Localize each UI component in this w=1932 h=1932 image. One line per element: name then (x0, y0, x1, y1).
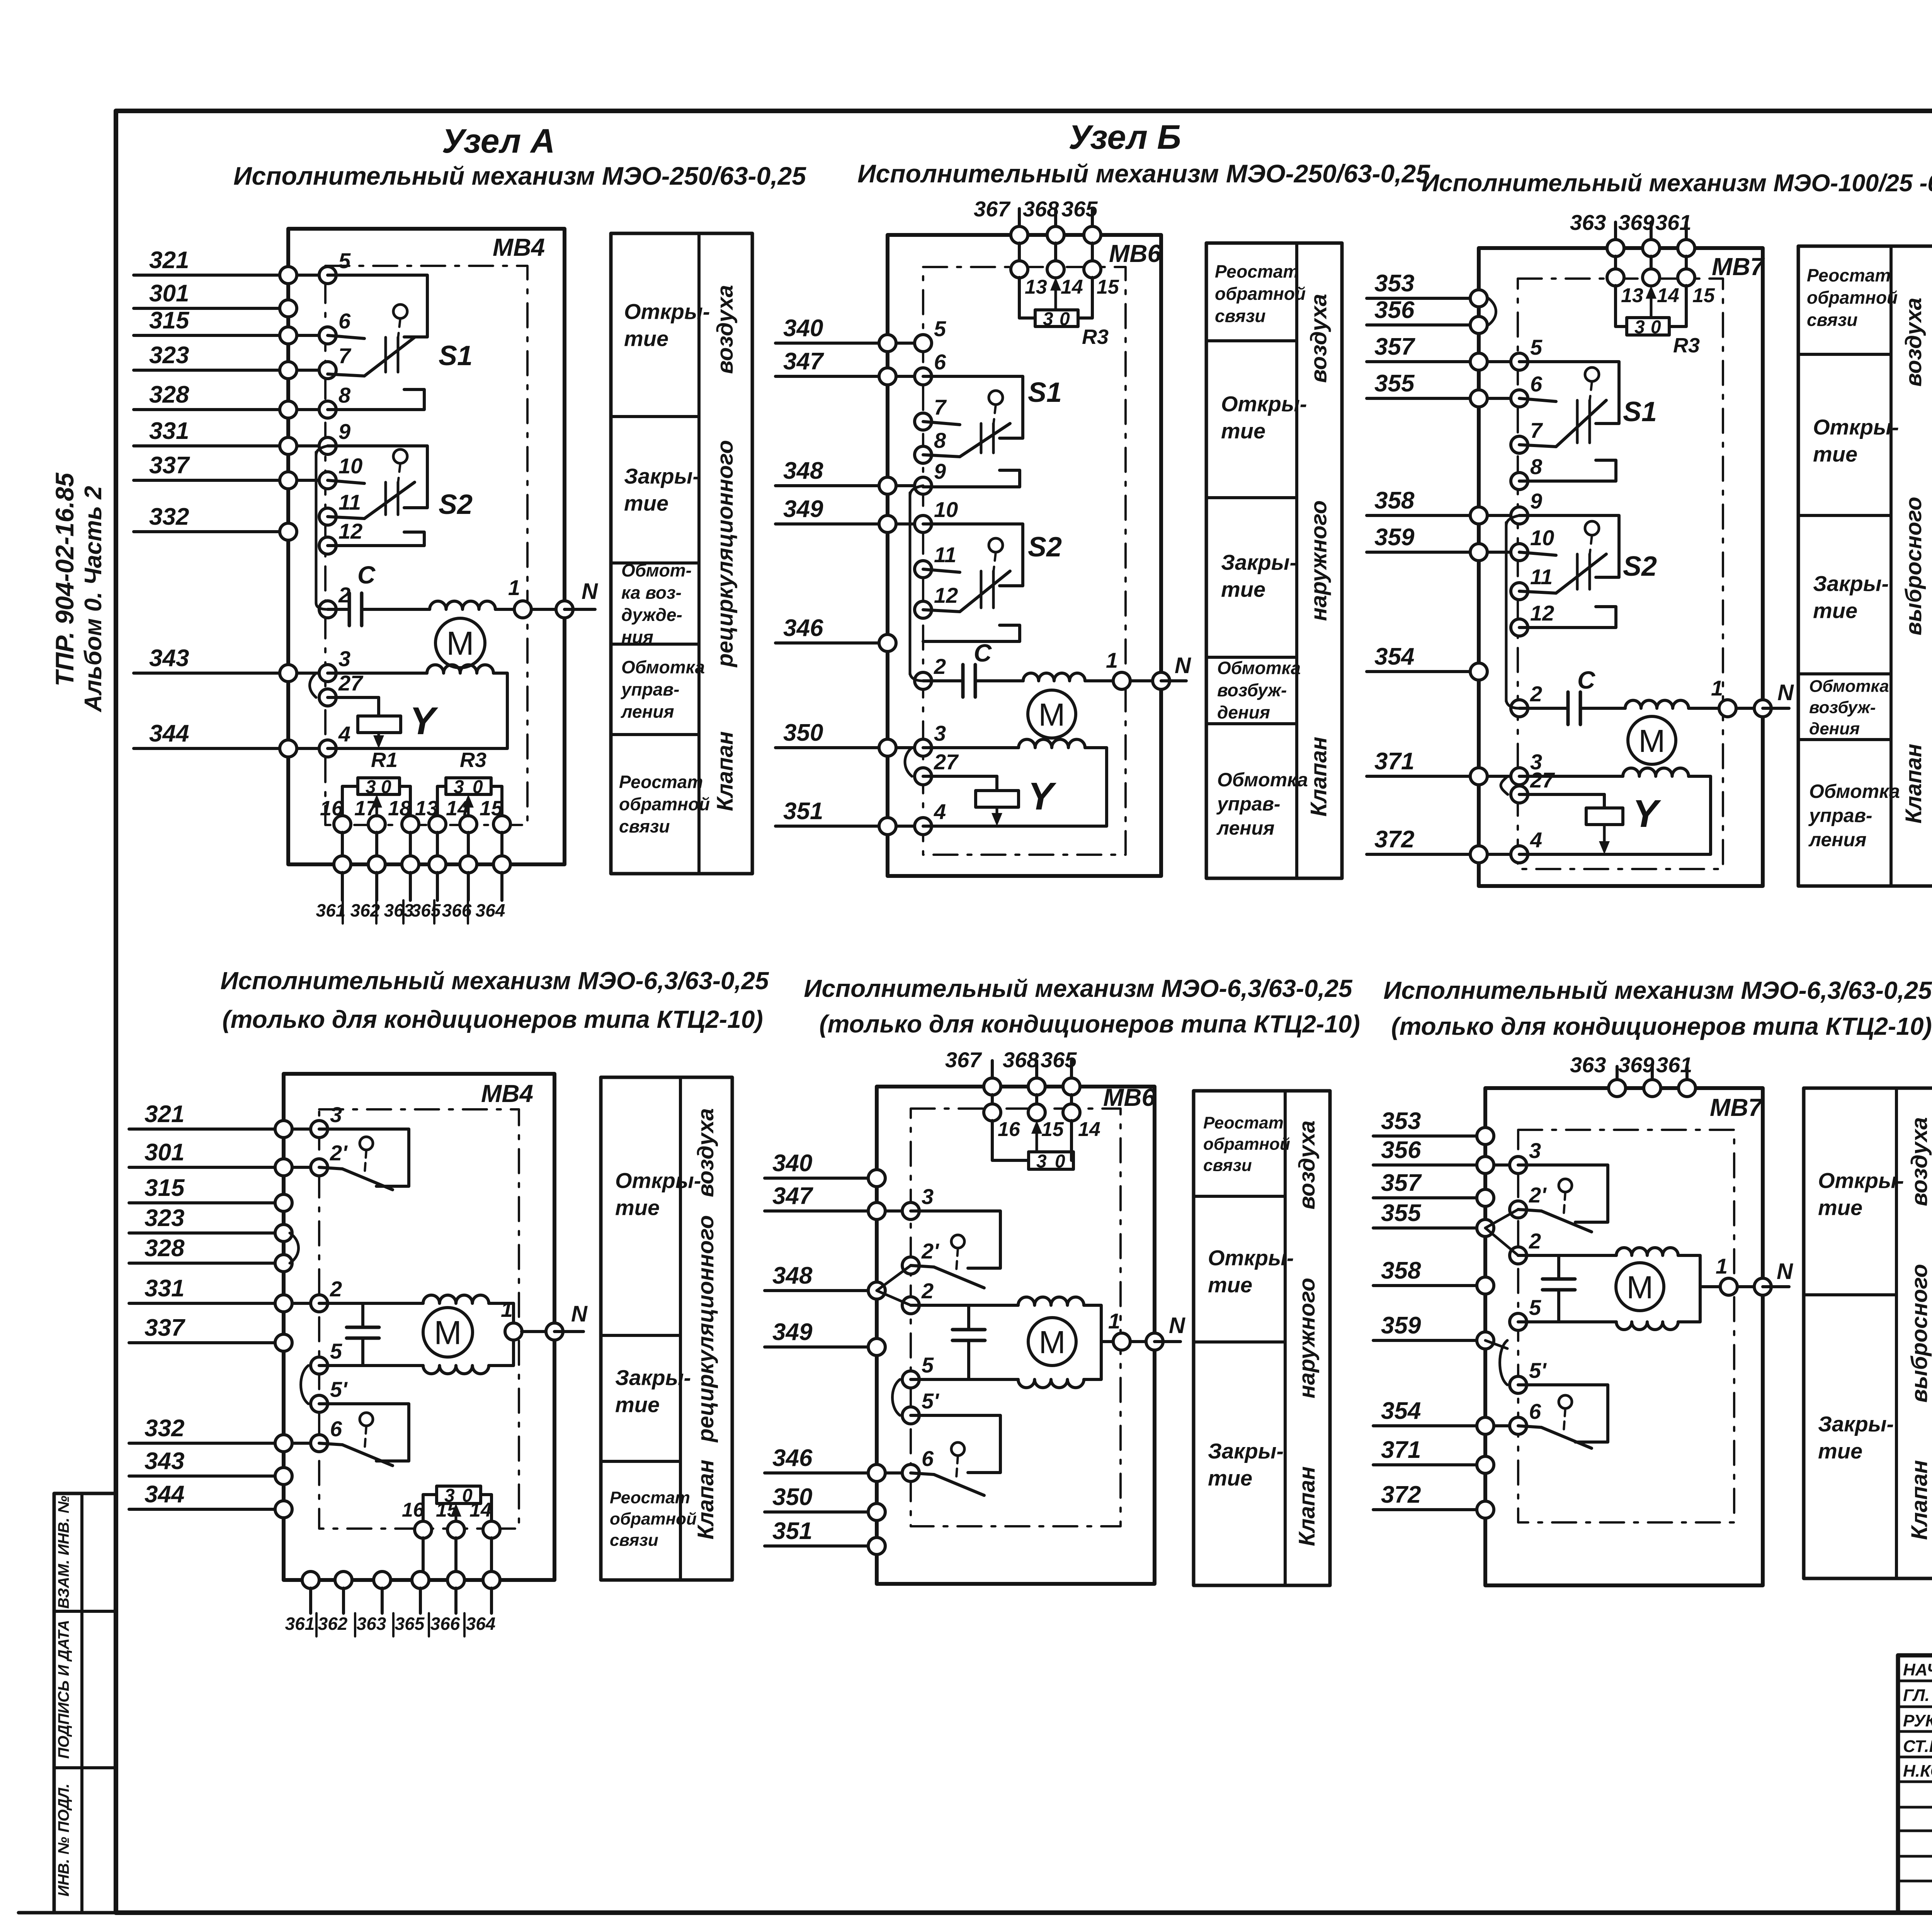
svg-text:C: C (1577, 666, 1595, 694)
svg-text:3: 3 (1634, 317, 1645, 338)
svg-text:13: 13 (1621, 284, 1643, 307)
svg-text:363: 363 (357, 1614, 386, 1634)
svg-text:C: C (974, 639, 992, 667)
svg-text:8: 8 (934, 428, 946, 452)
svg-text:связи: связи (1203, 1156, 1252, 1175)
svg-text:6: 6 (1529, 1399, 1541, 1423)
svg-text:15: 15 (1692, 284, 1715, 307)
svg-text:1: 1 (1108, 1309, 1120, 1333)
svg-text:367: 367 (974, 197, 1011, 221)
svg-text:Исполнительный механизм МЭО-6: Исполнительный механизм МЭО-6,3/63-0,25 (804, 975, 1353, 1002)
svg-text:358: 358 (1374, 487, 1415, 514)
svg-text:372: 372 (1374, 826, 1414, 853)
svg-text:Y: Y (1633, 792, 1662, 835)
svg-text:Откры-: Откры- (1221, 392, 1307, 416)
svg-text:350: 350 (772, 1484, 812, 1510)
svg-text:Закры-: Закры- (1208, 1439, 1284, 1463)
svg-text:Откры-: Откры- (615, 1168, 701, 1193)
svg-text:N: N (1777, 1259, 1793, 1284)
svg-text:1: 1 (1711, 676, 1723, 700)
svg-text:воздуха: воздуха (1907, 1117, 1932, 1206)
svg-text:347: 347 (772, 1183, 813, 1209)
svg-text:3: 3 (934, 721, 946, 745)
svg-text:365: 365 (411, 900, 441, 920)
svg-text:1: 1 (501, 1297, 513, 1321)
svg-text:НАЧ.ОТД.: НАЧ.ОТД. (1903, 1660, 1932, 1679)
svg-text:5: 5 (934, 316, 946, 341)
svg-text:S1: S1 (1623, 396, 1657, 427)
svg-text:воздуха: воздуха (713, 285, 738, 374)
svg-text:Реостат: Реостат (610, 1488, 690, 1507)
svg-text:354: 354 (1374, 643, 1414, 670)
svg-text:363: 363 (384, 900, 414, 920)
svg-text:рециркуляционного: рециркуляционного (713, 440, 738, 668)
svg-text:1: 1 (508, 575, 520, 600)
svg-text:340: 340 (783, 315, 823, 342)
svg-text:11: 11 (934, 543, 956, 567)
svg-text:315: 315 (145, 1175, 185, 1201)
svg-text:332: 332 (145, 1415, 184, 1442)
svg-text:выбросного: выбросного (1901, 497, 1926, 636)
svg-text:C: C (357, 561, 376, 589)
svg-text:Альбом 0. Часть 2: Альбом 0. Часть 2 (80, 486, 107, 713)
svg-text:349: 349 (772, 1319, 813, 1345)
svg-text:2: 2 (921, 1279, 934, 1303)
svg-text:тие: тие (1818, 1439, 1862, 1463)
svg-text:МВ6: МВ6 (1103, 1083, 1156, 1111)
svg-text:воздуха: воздуха (1306, 294, 1332, 383)
svg-text:27: 27 (934, 750, 959, 774)
svg-text:S1: S1 (1028, 377, 1062, 408)
svg-text:наружного: наружного (1306, 500, 1332, 621)
svg-text:дужде-: дужде- (621, 605, 682, 625)
svg-text:МВ7: МВ7 (1712, 253, 1765, 281)
svg-text:тие: тие (1208, 1466, 1252, 1490)
svg-text:5: 5 (1530, 335, 1543, 359)
svg-text:8: 8 (338, 383, 351, 407)
svg-text:N: N (582, 579, 598, 604)
svg-text:Н.КОНТР.: Н.КОНТР. (1903, 1762, 1932, 1781)
svg-text:ления: ления (1808, 829, 1866, 850)
svg-text:1: 1 (1106, 648, 1118, 672)
svg-text:14: 14 (469, 1499, 492, 1521)
svg-text:357: 357 (1374, 333, 1415, 360)
svg-text:6: 6 (338, 309, 351, 333)
svg-text:5': 5' (922, 1389, 939, 1413)
svg-text:359: 359 (1374, 524, 1415, 551)
svg-text:348: 348 (772, 1262, 813, 1289)
svg-text:дения: дения (1217, 702, 1270, 723)
svg-text:связи: связи (610, 1531, 658, 1549)
svg-text:15: 15 (1097, 276, 1119, 298)
svg-text:воздуха: воздуха (693, 1108, 718, 1197)
svg-text:369: 369 (1618, 1053, 1654, 1077)
svg-text:Клапан: Клапан (1294, 1466, 1320, 1546)
svg-text:321: 321 (149, 247, 189, 274)
svg-text:S2: S2 (1028, 532, 1062, 563)
svg-text:МВ4: МВ4 (481, 1080, 533, 1107)
svg-text:15: 15 (436, 1499, 459, 1521)
svg-text:управ-: управ- (1808, 805, 1872, 827)
svg-text:2': 2' (921, 1239, 939, 1263)
svg-text:2: 2 (1530, 682, 1542, 706)
svg-text:371: 371 (1381, 1437, 1421, 1463)
svg-text:14: 14 (1657, 284, 1679, 307)
svg-text:323: 323 (149, 342, 189, 369)
svg-text:обратной: обратной (619, 794, 710, 814)
svg-text:331: 331 (145, 1275, 184, 1302)
svg-text:15: 15 (480, 797, 503, 820)
svg-text:Закры-: Закры- (1818, 1412, 1894, 1436)
svg-text:Откры-: Откры- (1818, 1168, 1904, 1193)
svg-text:10: 10 (1530, 526, 1554, 550)
svg-text:5: 5 (1529, 1295, 1541, 1320)
svg-text:350: 350 (783, 719, 823, 746)
svg-text:356: 356 (1374, 297, 1415, 323)
svg-text:3: 3 (338, 646, 350, 671)
svg-text:ния: ния (621, 627, 653, 647)
svg-text:0: 0 (1060, 309, 1070, 330)
svg-text:3: 3 (454, 777, 464, 798)
svg-text:3: 3 (330, 1102, 342, 1127)
svg-text:ления: ления (621, 702, 674, 722)
svg-text:343: 343 (149, 645, 189, 672)
svg-text:(только для кондиционеров тип: (только для кондиционеров типа КТЦ2-10) (819, 1010, 1360, 1038)
svg-text:тие: тие (624, 327, 668, 351)
svg-text:Y: Y (410, 699, 439, 743)
svg-text:369: 369 (1618, 210, 1654, 235)
svg-text:9: 9 (338, 419, 350, 444)
svg-text:15: 15 (1041, 1118, 1064, 1141)
svg-text:Клапан: Клапан (1907, 1460, 1932, 1540)
svg-text:обратной: обратной (1215, 284, 1306, 304)
svg-text:328: 328 (149, 381, 189, 408)
svg-text:СТ.ИНЖ.: СТ.ИНЖ. (1903, 1737, 1932, 1756)
svg-text:Реостат: Реостат (1807, 265, 1891, 286)
svg-text:обратной: обратной (1807, 287, 1898, 308)
svg-text:Обмотка: Обмотка (1809, 677, 1889, 696)
svg-text:Откры-: Откры- (1208, 1246, 1294, 1270)
svg-text:7: 7 (338, 344, 352, 368)
svg-text:371: 371 (1374, 748, 1414, 775)
svg-text:5: 5 (922, 1353, 934, 1377)
svg-text:361: 361 (1656, 1053, 1692, 1077)
svg-text:344: 344 (149, 720, 189, 747)
svg-text:323: 323 (145, 1205, 184, 1231)
svg-text:тие: тие (1208, 1273, 1252, 1297)
svg-text:14: 14 (1061, 276, 1083, 298)
svg-text:ГЛ. СПЕЦ.: ГЛ. СПЕЦ. (1903, 1686, 1932, 1705)
svg-text:Исполнительный механизм МЭО-1: Исполнительный механизм МЭО-100/25 -0,25 (1422, 170, 1932, 197)
svg-text:наружного: наружного (1294, 1278, 1320, 1398)
svg-text:R1: R1 (371, 748, 398, 772)
svg-text:возбуж-: возбуж- (1809, 698, 1876, 717)
svg-text:361: 361 (1655, 210, 1691, 235)
svg-text:Обмот-: Обмот- (621, 560, 692, 580)
svg-text:ка воз-: ка воз- (621, 582, 682, 602)
svg-text:372: 372 (1381, 1481, 1421, 1508)
svg-text:5': 5' (330, 1377, 348, 1401)
svg-text:346: 346 (772, 1445, 813, 1471)
svg-text:S2: S2 (1623, 551, 1657, 582)
svg-text:2: 2 (934, 654, 946, 679)
svg-text:обратной: обратной (1203, 1134, 1290, 1153)
svg-text:301: 301 (145, 1139, 184, 1166)
svg-text:6: 6 (922, 1446, 934, 1471)
svg-text:14: 14 (446, 797, 469, 820)
svg-text:6: 6 (1530, 372, 1543, 396)
svg-text:340: 340 (772, 1150, 812, 1177)
svg-text:351: 351 (783, 798, 823, 825)
svg-text:321: 321 (145, 1101, 184, 1128)
svg-text:0: 0 (1055, 1151, 1065, 1172)
svg-text:365: 365 (1061, 197, 1098, 221)
svg-text:362: 362 (318, 1614, 348, 1634)
svg-text:9: 9 (934, 459, 946, 483)
svg-text:346: 346 (783, 615, 823, 641)
svg-text:Клапан: Клапан (1901, 744, 1926, 824)
svg-text:3: 3 (922, 1184, 934, 1209)
svg-text:Клапан: Клапан (1306, 737, 1332, 817)
svg-text:Обмотка: Обмотка (1217, 658, 1301, 678)
svg-text:S1: S1 (439, 340, 473, 371)
svg-text:359: 359 (1381, 1312, 1421, 1339)
svg-text:16: 16 (402, 1499, 425, 1521)
svg-text:355: 355 (1381, 1200, 1422, 1226)
svg-text:11: 11 (338, 490, 361, 514)
svg-text:R3: R3 (1082, 325, 1109, 349)
svg-text:M: M (1039, 1324, 1065, 1360)
svg-text:18: 18 (388, 797, 411, 820)
svg-text:332: 332 (149, 503, 189, 530)
svg-text:348: 348 (783, 457, 823, 484)
svg-text:Обмотка: Обмотка (1217, 769, 1308, 791)
svg-text:0: 0 (1651, 317, 1661, 338)
svg-text:364: 364 (476, 900, 505, 920)
svg-text:4: 4 (338, 722, 350, 746)
svg-text:3: 3 (1036, 1151, 1047, 1172)
svg-text:ИНВ. № ПОДЛ.: ИНВ. № ПОДЛ. (55, 1784, 72, 1897)
svg-text:Реостат: Реостат (619, 772, 703, 792)
svg-text:301: 301 (149, 280, 189, 307)
svg-text:M: M (1638, 723, 1665, 759)
svg-text:12: 12 (934, 583, 958, 607)
svg-text:воздуха: воздуха (1294, 1121, 1320, 1209)
svg-text:5': 5' (1529, 1358, 1547, 1383)
svg-text:N: N (1777, 680, 1794, 705)
svg-text:тие: тие (1813, 599, 1857, 623)
svg-text:353: 353 (1381, 1108, 1421, 1134)
svg-text:Откры-: Откры- (1813, 415, 1899, 439)
svg-text:Исполнительный механизм МЭО-2: Исполнительный механизм МЭО-250/63-0,25 (233, 162, 806, 190)
svg-text:365: 365 (1041, 1048, 1077, 1072)
svg-text:2: 2 (1529, 1229, 1541, 1253)
svg-text:возбуж-: возбуж- (1217, 680, 1287, 700)
svg-text:4: 4 (1530, 828, 1542, 852)
svg-text:тие: тие (615, 1196, 660, 1220)
svg-text:МВ6: МВ6 (1109, 240, 1162, 267)
svg-text:351: 351 (772, 1518, 812, 1544)
svg-text:M: M (434, 1315, 462, 1352)
svg-text:тие: тие (615, 1393, 660, 1417)
svg-text:M: M (1038, 697, 1065, 733)
svg-text:N: N (571, 1301, 588, 1327)
svg-text:Клапан: Клапан (693, 1459, 718, 1539)
svg-text:5: 5 (330, 1339, 342, 1363)
svg-text:315: 315 (149, 307, 190, 334)
svg-text:13: 13 (415, 797, 438, 820)
svg-text:6: 6 (934, 350, 946, 374)
svg-text:365: 365 (395, 1614, 425, 1634)
svg-text:347: 347 (783, 348, 824, 375)
svg-text:16: 16 (998, 1118, 1020, 1141)
svg-text:353: 353 (1374, 270, 1414, 297)
svg-text:355: 355 (1374, 370, 1415, 397)
svg-text:Реостат: Реостат (1203, 1113, 1284, 1132)
svg-text:367: 367 (945, 1048, 982, 1072)
svg-text:357: 357 (1381, 1170, 1422, 1196)
svg-text:14: 14 (1078, 1118, 1100, 1141)
svg-text:управ-: управ- (1216, 793, 1281, 815)
svg-text:344: 344 (145, 1481, 184, 1508)
svg-text:Откры-: Откры- (624, 299, 710, 324)
svg-text:Исполнительный механизм МЭО-6: Исполнительный механизм МЭО-6,3/63-0,25 (1383, 976, 1932, 1004)
svg-text:воздуха: воздуха (1901, 298, 1926, 386)
svg-text:1: 1 (1716, 1254, 1728, 1278)
svg-text:2': 2' (1529, 1183, 1547, 1207)
svg-text:366: 366 (430, 1614, 460, 1634)
svg-text:Закры-: Закры- (1221, 550, 1297, 575)
svg-text:12: 12 (338, 519, 362, 543)
svg-text:356: 356 (1381, 1137, 1421, 1163)
svg-text:тие: тие (1221, 419, 1265, 443)
svg-text:связи: связи (1807, 310, 1857, 330)
svg-text:328: 328 (145, 1235, 185, 1262)
svg-text:Y: Y (1028, 775, 1057, 818)
svg-text:3: 3 (1043, 309, 1053, 330)
svg-text:5: 5 (338, 248, 351, 273)
svg-text:8: 8 (1530, 454, 1543, 479)
svg-text:0: 0 (473, 777, 483, 798)
svg-text:N: N (1175, 653, 1191, 678)
svg-text:Клапан: Клапан (713, 731, 738, 811)
svg-text:361: 361 (316, 900, 346, 920)
svg-text:МВ4: МВ4 (493, 233, 545, 261)
svg-text:Узел А: Узел А (442, 122, 555, 160)
svg-text:11: 11 (1530, 565, 1553, 589)
svg-text:358: 358 (1381, 1257, 1421, 1284)
svg-text:Узел Б: Узел Б (1068, 118, 1181, 156)
svg-text:368: 368 (1003, 1048, 1039, 1072)
svg-text:10: 10 (934, 497, 958, 522)
svg-text:Обмотка: Обмотка (1809, 781, 1900, 802)
svg-text:349: 349 (783, 496, 823, 522)
svg-text:(только для кондиционеров тип: (только для кондиционеров типа КТЦ2-10) (1391, 1012, 1932, 1040)
svg-text:3: 3 (1529, 1138, 1541, 1163)
svg-text:тие: тие (1221, 577, 1265, 602)
svg-text:331: 331 (149, 418, 189, 444)
svg-text:R3: R3 (460, 748, 486, 772)
svg-text:связи: связи (1215, 306, 1265, 326)
svg-text:7: 7 (1530, 418, 1543, 442)
svg-text:ВЗАМ. ИНВ. №: ВЗАМ. ИНВ. № (55, 1496, 72, 1609)
svg-text:9: 9 (1530, 489, 1542, 513)
svg-text:361: 361 (285, 1614, 315, 1634)
svg-text:МВ7: МВ7 (1710, 1094, 1764, 1121)
svg-text:337: 337 (145, 1315, 185, 1341)
svg-text:РУК. ГР.: РУК. ГР. (1903, 1711, 1932, 1730)
svg-text:7: 7 (934, 395, 947, 419)
svg-text:354: 354 (1381, 1398, 1421, 1424)
svg-text:выбросного: выбросного (1907, 1264, 1932, 1403)
svg-text:Реостат: Реостат (1215, 262, 1299, 282)
svg-text:ПОДПИСЬ И ДАТА: ПОДПИСЬ И ДАТА (55, 1620, 72, 1759)
svg-text:тие: тие (1813, 442, 1857, 466)
svg-text:Закры-: Закры- (1813, 571, 1889, 596)
svg-text:M: M (1626, 1269, 1653, 1305)
svg-text:Закры-: Закры- (624, 464, 700, 488)
svg-text:тие: тие (624, 491, 668, 515)
svg-text:2': 2' (330, 1141, 348, 1165)
svg-text:связи: связи (619, 816, 670, 837)
svg-text:3: 3 (366, 777, 376, 798)
svg-text:364: 364 (466, 1614, 496, 1634)
svg-text:S2: S2 (439, 489, 473, 520)
svg-text:тие: тие (1818, 1196, 1862, 1220)
svg-text:27: 27 (1530, 768, 1555, 792)
svg-text:Обмотка: Обмотка (621, 657, 705, 677)
svg-text:ления: ления (1216, 817, 1274, 839)
svg-text:337: 337 (149, 452, 190, 479)
svg-text:ТПР. 904-02-16.85: ТПР. 904-02-16.85 (50, 472, 79, 686)
svg-text:10: 10 (338, 454, 362, 478)
svg-text:363: 363 (1570, 1053, 1606, 1077)
svg-text:дения: дения (1809, 719, 1860, 738)
svg-text:16: 16 (320, 797, 344, 820)
svg-text:рециркуляционного: рециркуляционного (693, 1215, 718, 1443)
svg-text:M: M (446, 625, 474, 662)
svg-text:Исполнительный механизм МЭО-2: Исполнительный механизм МЭО-250/63-0,25 (857, 159, 1430, 188)
svg-text:4: 4 (934, 799, 946, 824)
svg-text:368: 368 (1023, 197, 1059, 221)
svg-text:R3: R3 (1673, 334, 1700, 357)
svg-text:13: 13 (1025, 276, 1047, 298)
svg-text:0: 0 (381, 777, 391, 798)
svg-text:2: 2 (330, 1277, 342, 1301)
svg-text:обратной: обратной (610, 1509, 697, 1528)
svg-text:6: 6 (330, 1417, 342, 1441)
svg-text:управ-: управ- (621, 679, 679, 699)
svg-text:Закры-: Закры- (615, 1366, 691, 1390)
svg-text:Исполнительный механизм МЭО-6: Исполнительный механизм МЭО-6,3/63-0,25 (220, 967, 769, 995)
svg-text:N: N (1169, 1313, 1185, 1338)
svg-text:(только для кондиционеров тип: (только для кондиционеров типа КТЦ2-10) (222, 1005, 763, 1033)
svg-text:363: 363 (1570, 210, 1606, 235)
svg-text:12: 12 (1530, 601, 1554, 625)
svg-text:343: 343 (145, 1448, 184, 1475)
